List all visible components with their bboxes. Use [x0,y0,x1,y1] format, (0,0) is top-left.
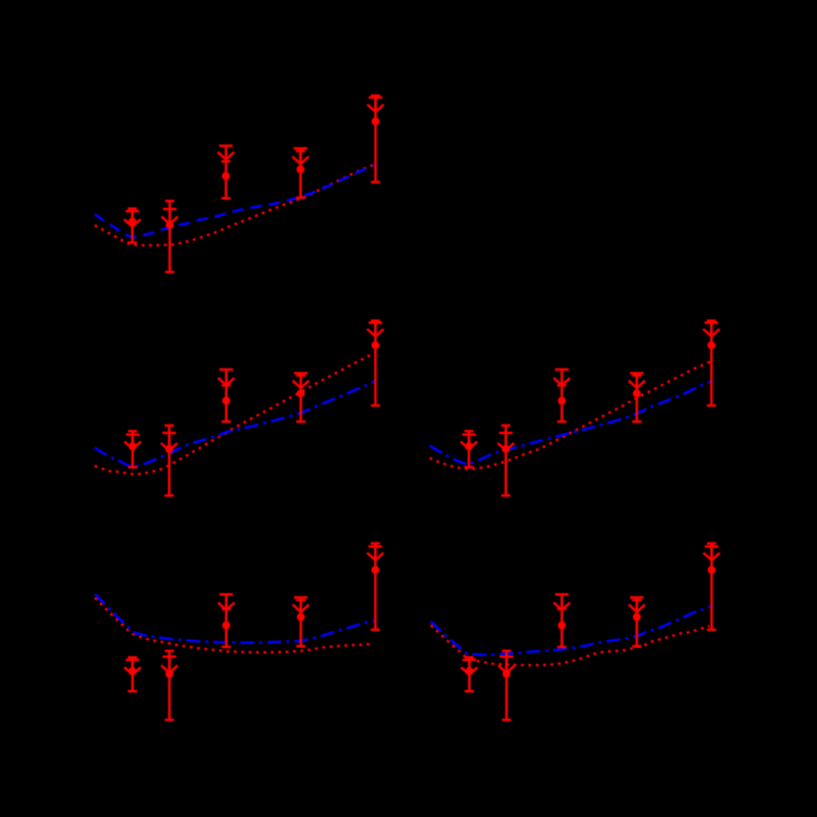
data point 2 (middle-left): upper-limit arrow [161,433,177,451]
data point 1 (bottom-left): error bar [128,657,137,691]
data point 5 (top-left): upper-limit arrow [367,98,383,112]
data point 2 (middle-left): flux marker [165,445,173,453]
data point 3 (bottom-right): flux marker [558,621,566,629]
data point 5 (middle-left): flux marker [371,341,379,349]
data point 2 (bottom-right): error bar [502,651,511,720]
data point 5 (bottom-left): flux marker [371,566,379,574]
data point 1 (bottom-left): flux marker [129,667,137,675]
data point 4 (top-left): upper-limit arrow [292,148,308,164]
data point 1 (top-left): flux marker [128,218,136,226]
data point 1 (bottom-right): error bar [465,657,474,691]
data point 2 (middle-right): upper-limit arrow [498,433,514,451]
data point 5 (bottom-right): upper-limit arrow [703,547,719,561]
data point 5 (bottom-right): error bar [707,543,716,629]
data point 4 (bottom-left): upper-limit arrow [293,597,309,612]
data point 2 (middle-right): error bar [501,426,510,496]
bottom-left panel: blue dashed model curve [95,594,375,643]
data point 5 (middle-right): upper-limit arrow [703,323,719,337]
data point 4 (middle-left): error bar [296,376,305,422]
data point 2 (bottom-right): upper-limit arrow [498,657,514,673]
data point 3 (top-left): upper-limit arrow [218,146,234,160]
top-left panel: blue dashed model curve [95,165,376,238]
data point 1 (middle-left): upper-limit arrow [124,435,140,449]
data point 3 (bottom-left): upper-limit arrow [218,594,234,610]
data point 4 (bottom-left): error bar [296,600,305,646]
data point 1 (middle-left): error bar [128,431,137,467]
data point 2 (top-left): flux marker [166,221,174,229]
data point 2 (bottom-left): flux marker [165,670,173,678]
middle-right panel: blue dashed model curve [430,381,712,465]
data point 2 (bottom-right): flux marker [503,670,511,678]
data point 3 (bottom-right): upper-limit arrow [554,594,570,610]
data point 3 (middle-right): upper-limit arrow [554,370,570,386]
data point 3 (middle-left): upper-limit arrow [218,370,234,386]
data point 3 (top-left): error bar [221,161,230,198]
data point 4 (top-left): error bar [296,151,305,198]
data point 4 (bottom-right): error bar [632,600,641,646]
data point 1 (middle-right): error bar [464,431,473,467]
data point 2 (middle-right): flux marker [502,445,510,453]
bottom-right panel: red dotted model curve [431,625,710,665]
data point 2 (middle-left): error bar [165,426,174,496]
data point 1 (top-left): upper-limit arrow [124,211,140,227]
data point 4 (middle-left): upper-limit arrow [293,373,309,388]
middle-left panel: blue dashed model curve [95,381,376,467]
data point 2 (top-left): error bar [165,201,174,272]
data point 5 (bottom-right): flux marker [708,566,716,574]
data point 4 (bottom-left): flux marker [297,613,305,621]
data point 1 (middle-left): flux marker [129,442,137,450]
data point 5 (middle-right): flux marker [707,341,715,349]
data point 1 (bottom-left): upper-limit arrow [124,660,140,675]
middle-left panel: red dotted model curve [95,353,376,475]
data point 2 (top-left): upper-limit arrow [162,209,178,224]
data point 4 (middle-right): upper-limit arrow [629,373,645,388]
data point 4 (middle-right): error bar [632,376,641,422]
data point 5 (top-left): error bar [371,96,380,183]
data point 3 (middle-right): error bar [557,385,566,421]
bottom-right panel: blue dashed model curve [431,606,711,654]
data point 3 (bottom-left): flux marker [222,621,230,629]
data point 1 (bottom-right): upper-limit arrow [461,660,477,675]
data point 4 (bottom-right): upper-limit arrow [629,597,645,612]
data point 4 (top-left): flux marker [297,165,305,173]
data point 1 (middle-right): flux marker [465,442,473,450]
data point 3 (middle-left): error bar [222,385,231,421]
data point 3 (bottom-right): error bar [557,609,566,647]
data point 5 (middle-right): error bar [707,321,716,406]
data point 4 (middle-right): flux marker [633,389,641,397]
bottom-left panel: red dotted model curve [95,598,374,653]
data point 5 (middle-left): upper-limit arrow [367,323,383,337]
data point 5 (middle-left): error bar [371,321,380,406]
data point 3 (middle-left): flux marker [222,397,230,405]
data point 5 (bottom-left): error bar [371,543,380,629]
data point 5 (top-left): flux marker [372,117,380,125]
data point 4 (middle-left): flux marker [297,389,305,397]
data point 2 (bottom-left): error bar [165,651,174,720]
data point 1 (middle-right): upper-limit arrow [461,435,477,449]
data point 1 (bottom-right): flux marker [465,667,473,675]
data point 1 (top-left): error bar [128,209,137,243]
data point 3 (top-left): flux marker [222,172,230,180]
data point 2 (bottom-left): upper-limit arrow [161,657,177,673]
data point 3 (middle-right): flux marker [558,397,566,405]
top-left panel: red dotted model curve [95,165,374,246]
data point 5 (bottom-left): upper-limit arrow [367,547,383,561]
data point 4 (bottom-right): flux marker [633,613,641,621]
data point 3 (bottom-left): error bar [222,609,231,647]
middle-right panel: red dotted model curve [430,361,712,469]
